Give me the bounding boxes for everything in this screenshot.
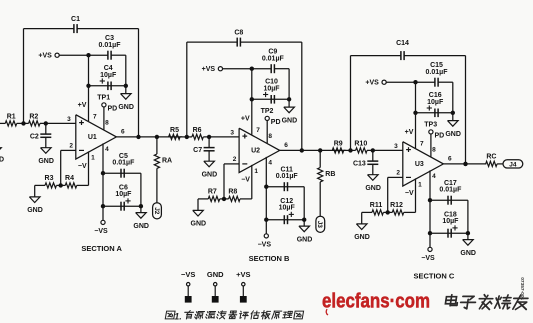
svg-text:−V: −V	[78, 163, 87, 170]
svg-text:4: 4	[105, 146, 109, 153]
svg-text:J3: J3	[316, 221, 323, 229]
svg-text:2: 2	[69, 142, 73, 149]
svg-text:R3: R3	[45, 175, 54, 182]
svg-text:RB: RB	[325, 171, 335, 178]
svg-text:1: 1	[254, 168, 258, 175]
svg-text:R1: R1	[7, 114, 16, 121]
svg-text:elecfans·com: elecfans·com	[322, 290, 430, 313]
svg-text:1: 1	[418, 181, 422, 188]
svg-text:3: 3	[67, 116, 71, 123]
svg-text:TP1: TP1	[97, 95, 110, 102]
svg-text:U3: U3	[415, 161, 424, 168]
svg-text:−VS: −VS	[181, 270, 195, 279]
svg-text:2: 2	[233, 156, 237, 163]
svg-text:C7: C7	[193, 147, 202, 154]
svg-text:1: 1	[91, 154, 95, 161]
svg-text:−VS: −VS	[421, 255, 435, 262]
svg-text:10µF: 10µF	[442, 218, 459, 225]
svg-text:R7: R7	[208, 189, 217, 196]
svg-text:PD: PD	[108, 105, 118, 112]
svg-text:GND: GND	[207, 270, 224, 279]
svg-text:10µF: 10µF	[100, 72, 117, 79]
svg-text:8: 8	[432, 146, 436, 153]
svg-text:0.01µF: 0.01µF	[262, 55, 285, 62]
svg-text:07357-001: 07357-001	[519, 277, 525, 300]
svg-text:8: 8	[268, 133, 272, 140]
svg-text:TP2: TP2	[261, 108, 274, 115]
svg-text:C10: C10	[265, 78, 278, 85]
svg-text:R4: R4	[65, 175, 74, 182]
svg-text:R11: R11	[370, 202, 383, 209]
svg-text:0.01µF: 0.01µF	[276, 173, 299, 180]
svg-text:GND: GND	[282, 117, 298, 124]
svg-text:GND: GND	[297, 236, 313, 243]
svg-text:R9: R9	[334, 141, 343, 148]
svg-text:R10: R10	[354, 141, 367, 148]
svg-text:J2: J2	[153, 207, 160, 215]
svg-text:C13: C13	[353, 160, 366, 167]
svg-text:RC: RC	[486, 154, 496, 161]
svg-text:GND: GND	[191, 221, 207, 228]
svg-text:3: 3	[230, 130, 234, 137]
svg-text:GND: GND	[27, 207, 43, 214]
svg-text:R5: R5	[170, 127, 179, 134]
svg-text:6: 6	[121, 128, 125, 135]
svg-text:6: 6	[448, 155, 452, 162]
svg-text:7: 7	[256, 127, 260, 134]
svg-text:GND: GND	[354, 234, 370, 241]
svg-text:4: 4	[432, 173, 436, 180]
svg-text:C8: C8	[234, 29, 243, 36]
svg-text:0.01µF: 0.01µF	[426, 69, 449, 76]
svg-text:+VS: +VS	[236, 270, 250, 279]
svg-text:10µF: 10µF	[427, 99, 444, 106]
svg-text:+V: +V	[78, 102, 87, 109]
svg-text:1.: 1.	[174, 311, 182, 321]
svg-text:10µF: 10µF	[279, 204, 296, 211]
svg-text:GND: GND	[365, 185, 381, 192]
svg-text:10µF: 10µF	[263, 85, 280, 92]
svg-text:GND: GND	[202, 172, 218, 179]
svg-text:SECTION B: SECTION B	[249, 254, 290, 263]
svg-text:GND: GND	[0, 157, 4, 164]
svg-text:6: 6	[284, 142, 288, 149]
svg-text:−VS: −VS	[94, 228, 108, 235]
svg-text:GND: GND	[38, 158, 54, 165]
svg-text:RA: RA	[162, 158, 172, 165]
svg-text:C2: C2	[30, 133, 39, 140]
svg-text:+VS: +VS	[202, 66, 216, 73]
svg-text:−V: −V	[405, 190, 414, 197]
svg-text:2: 2	[396, 169, 400, 176]
svg-text:10µF: 10µF	[115, 191, 132, 198]
svg-text:GND: GND	[445, 131, 461, 138]
svg-text:PD: PD	[435, 132, 445, 139]
svg-text:GND: GND	[133, 223, 149, 230]
svg-text:C14: C14	[396, 40, 409, 47]
svg-text:−VS: −VS	[258, 242, 272, 249]
svg-text:−V: −V	[241, 177, 250, 184]
svg-text:7: 7	[420, 141, 424, 148]
svg-text:R12: R12	[390, 202, 403, 209]
svg-text:+VS: +VS	[38, 53, 52, 60]
svg-text:0.01µF: 0.01µF	[439, 186, 462, 193]
svg-text:+V: +V	[405, 129, 414, 136]
svg-text:0.01µF: 0.01µF	[112, 159, 135, 166]
svg-text:8: 8	[105, 119, 109, 126]
svg-text:C1: C1	[71, 16, 80, 23]
svg-text:SECTION C: SECTION C	[413, 271, 454, 280]
svg-text:GND: GND	[460, 250, 476, 257]
svg-text:TP3: TP3	[424, 122, 437, 129]
svg-text:C4: C4	[104, 65, 113, 72]
svg-text:GND: GND	[118, 104, 134, 111]
svg-text:0.01µF: 0.01µF	[99, 42, 122, 49]
svg-text:3: 3	[394, 143, 398, 150]
svg-text:R8: R8	[228, 189, 237, 196]
svg-text:4: 4	[268, 160, 272, 167]
svg-text:U2: U2	[251, 148, 260, 155]
svg-text:PD: PD	[271, 119, 281, 126]
svg-text:+V: +V	[241, 116, 250, 123]
svg-text:C16: C16	[429, 92, 442, 99]
svg-text:+VS: +VS	[365, 80, 379, 87]
svg-text:J4: J4	[509, 162, 517, 169]
svg-text:SECTION A: SECTION A	[81, 244, 122, 253]
svg-text:U1: U1	[88, 134, 97, 141]
svg-text:7: 7	[93, 114, 97, 121]
